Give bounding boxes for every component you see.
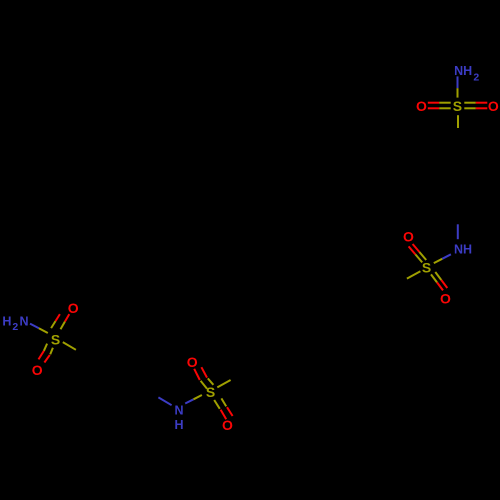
double bond S2=O2A line1 O half xyxy=(413,244,420,252)
svg-text:N: N xyxy=(19,315,28,329)
double bond S4=O4A line2 O half xyxy=(201,367,207,377)
double bond S4=O4A line1 O half xyxy=(194,369,200,380)
bond S3-C visible S half xyxy=(63,342,76,350)
svg-text:S: S xyxy=(422,259,431,275)
double bond S1=O1R line2 S half xyxy=(464,107,476,109)
double bond S1=O1L line2 O half xyxy=(428,107,439,109)
bond C-N4 visible N half xyxy=(158,397,171,405)
bond N3-S3 N half xyxy=(30,324,39,329)
double bond S1=O1L line1 S half xyxy=(439,102,451,104)
svg-text:O: O xyxy=(416,98,427,114)
double bond S3=O3A line2 O half xyxy=(65,314,69,322)
double bond S2=O2A line2 S half xyxy=(415,254,422,262)
svg-text:NH: NH xyxy=(454,243,472,257)
bond S1-C2 visible S half xyxy=(457,115,459,128)
double bond S1=O1L line1 O half xyxy=(428,102,439,104)
double bond S4=O4B line1 O half xyxy=(221,410,227,420)
svg-text:O: O xyxy=(32,362,43,378)
double bond S1=O1L line2 S half xyxy=(439,107,451,109)
svg-text:O: O xyxy=(187,354,198,370)
double bond S2=O2B line1 O half xyxy=(437,282,443,290)
bond N3-S3 S half xyxy=(39,328,48,333)
double bond S3=O3B line2 O half xyxy=(44,355,49,363)
double bond S4=O4B line1 S half xyxy=(214,400,220,409)
double bond S3=O3B line2 S half xyxy=(50,348,53,355)
svg-text:O: O xyxy=(68,300,79,316)
svg-text:O: O xyxy=(440,291,451,307)
double bond S1=O1R line1 O half xyxy=(476,102,488,104)
double bond S3=O3A line2 S half xyxy=(61,322,65,330)
svg-text:S: S xyxy=(453,98,462,114)
double bond S4=O4A line2 S half xyxy=(208,378,214,384)
double bond S4=O4B line2 S half xyxy=(221,398,226,406)
svg-text:H: H xyxy=(174,418,183,432)
svg-text:S: S xyxy=(51,332,60,348)
double bond S3=O3B line1 S half xyxy=(44,344,47,351)
bond N2-S2 S half xyxy=(434,259,442,263)
svg-text:H: H xyxy=(2,315,11,329)
double bond S1=O1R line2 O half xyxy=(476,107,488,109)
svg-text:S: S xyxy=(206,384,215,400)
svg-text:2: 2 xyxy=(12,321,18,333)
bond S4-CH3 visible S half xyxy=(217,380,230,387)
double bond S2=O2A line1 S half xyxy=(419,252,426,260)
bond N2-S2 N half xyxy=(442,254,451,258)
double bond S4=O4A line1 S half xyxy=(201,381,207,389)
svg-text:2: 2 xyxy=(473,72,479,84)
bond N4-S4 S half xyxy=(194,395,202,399)
svg-text:NH: NH xyxy=(454,64,472,78)
svg-text:O: O xyxy=(403,229,414,245)
double bond S2=O2B line2 O half xyxy=(441,280,447,288)
double bond S2=O2B line2 S half xyxy=(435,272,441,280)
svg-text:O: O xyxy=(488,98,499,114)
bond S2-CH3 visible S half xyxy=(407,271,421,278)
double bond S4=O4B line2 O half xyxy=(227,407,233,416)
double bond S3=O3A line1 S half xyxy=(51,321,55,328)
bond N1-S1 lower half (S side) xyxy=(457,88,459,97)
bond N1-S1 upper half (N side) xyxy=(457,76,459,88)
bond C5-N2 visible N half xyxy=(457,224,459,239)
double bond S3=O3A line1 O half xyxy=(56,314,60,321)
bond N4-S4 N half xyxy=(185,399,193,403)
svg-text:N: N xyxy=(174,403,183,417)
double bond S3=O3B line1 O half xyxy=(39,351,44,360)
double bond S2=O2A line2 O half xyxy=(409,246,416,254)
svg-text:O: O xyxy=(222,417,233,433)
double bond S2=O2B line1 S half xyxy=(431,274,437,282)
double bond S1=O1R line1 S half xyxy=(464,102,476,104)
